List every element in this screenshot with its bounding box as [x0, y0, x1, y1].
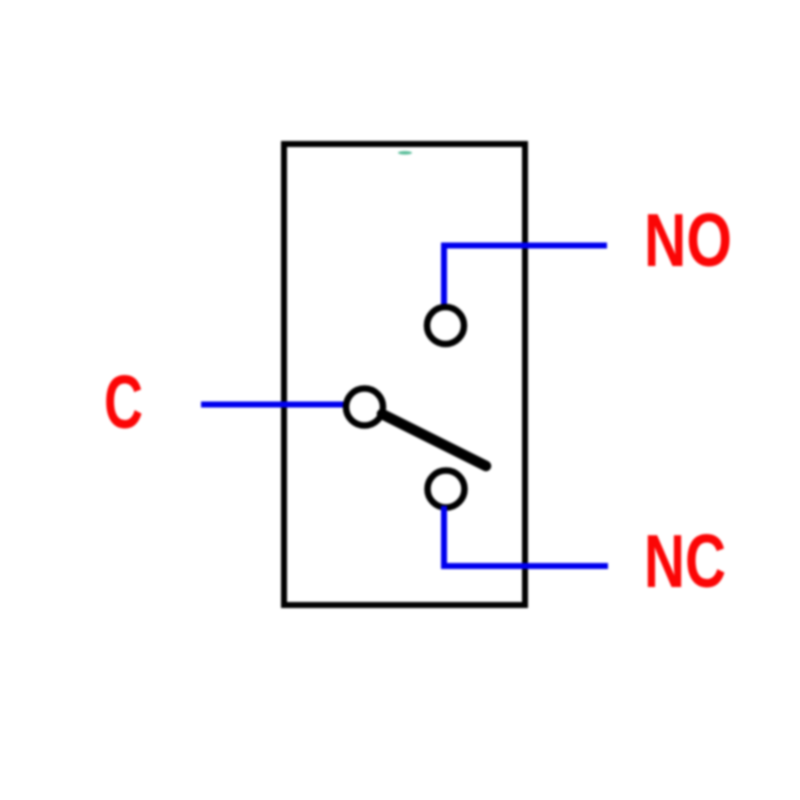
terminal NO contact — [427, 307, 464, 344]
svg-text:NC: NC — [644, 519, 726, 603]
wire NC lead — [444, 506, 608, 566]
wire NO lead — [444, 246, 607, 308]
switch lever arm — [382, 414, 486, 466]
terminal NC contact — [428, 471, 465, 508]
wire C lead — [201, 402, 346, 408]
green mark — [398, 151, 412, 154]
svg-text:C: C — [104, 360, 143, 444]
switch body outline — [284, 144, 525, 605]
terminal C contact (common pole) — [346, 389, 383, 426]
svg-text:NO: NO — [644, 198, 732, 282]
